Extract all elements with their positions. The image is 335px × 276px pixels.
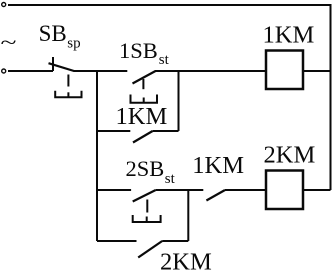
- terminal L2: [2, 69, 6, 73]
- svg-text:SB: SB: [39, 21, 67, 46]
- wire branch2 right vertical: [187, 190, 189, 241]
- wire coil2 to rail: [303, 189, 331, 191]
- SBsp actuator (button cap): [55, 75, 81, 98]
- wire left branch vertical: [96, 71, 98, 241]
- wire row2 right: [225, 189, 266, 191]
- svg-text:1SB: 1SB: [119, 38, 158, 63]
- wire row1 middle: [74, 70, 128, 72]
- svg-text:2KM: 2KM: [160, 248, 212, 275]
- terminal L1: [2, 3, 6, 7]
- svg-text:1KM: 1KM: [192, 152, 244, 179]
- wire row3 right: [162, 240, 188, 242]
- wire coil1 to rail: [303, 70, 331, 72]
- wire row3 left: [97, 240, 137, 242]
- pushbutton SBsp NC contact: [49, 57, 75, 71]
- contactor interlock contact 1KM: [206, 190, 225, 201]
- pushbutton 2SBst NO contact: [133, 190, 156, 202]
- label 1SBst: [119, 38, 170, 68]
- svg-text:1KM: 1KM: [263, 21, 315, 48]
- svg-text:2SB: 2SB: [126, 156, 165, 181]
- wire row2 middle: [156, 189, 204, 191]
- svg-text:~: ~: [1, 32, 17, 54]
- svg-text:st: st: [165, 171, 176, 187]
- wire branch1 right vertical: [178, 71, 180, 131]
- svg-text:1KM: 1KM: [116, 103, 168, 130]
- wire row1 right: [155, 70, 266, 72]
- wire row2 left lead: [97, 189, 131, 191]
- svg-text:sp: sp: [67, 35, 80, 51]
- label SBsp: [39, 21, 81, 51]
- svg-text:st: st: [159, 52, 170, 68]
- wire top rail: [8, 4, 331, 6]
- contactor contact 2KM: [138, 241, 162, 258]
- svg-text:2KM: 2KM: [264, 142, 316, 169]
- coil 1KM: [266, 51, 303, 90]
- wire right rail: [330, 4, 332, 190]
- coil 2KM: [266, 171, 303, 210]
- label 2SBst: [126, 156, 176, 187]
- 2SBst actuator (button cap): [133, 200, 161, 223]
- 1SBst actuator (button cap): [131, 79, 158, 103]
- pushbutton 1SBst NO contact: [133, 71, 156, 84]
- wire row1 left lead: [8, 70, 53, 72]
- contactor self-latch contact 1KM: [97, 131, 179, 143]
